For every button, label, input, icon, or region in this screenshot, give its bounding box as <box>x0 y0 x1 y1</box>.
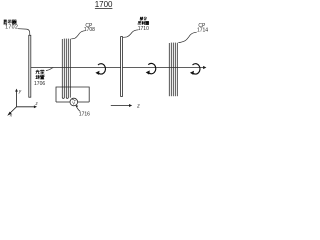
rotation arrow 1 <box>95 64 105 75</box>
svg-text:x: x <box>9 113 13 118</box>
CP stack 1714 (film layers) <box>169 43 177 97</box>
svg-text:1710: 1710 <box>138 26 149 32</box>
svg-text:1700: 1700 <box>95 0 113 9</box>
rotation arrow 3 <box>190 64 200 75</box>
z axis <box>17 106 35 108</box>
svg-text:1716: 1716 <box>79 112 90 118</box>
coordinate axes x y z <box>10 91 35 113</box>
electrode box around CP stack <box>56 87 89 102</box>
voltage source V 1716 <box>70 98 78 106</box>
svg-text:y: y <box>18 90 22 95</box>
leader to display <box>18 29 30 36</box>
svg-text:1708: 1708 <box>84 27 95 33</box>
svg-text:1702: 1702 <box>5 25 18 31</box>
optical axis <box>31 67 204 69</box>
y axis <box>16 91 18 107</box>
title 1700 <box>95 0 113 9</box>
svg-text:1714: 1714 <box>197 28 208 34</box>
leader to CP stack <box>71 31 85 39</box>
x axis <box>10 107 17 114</box>
CP stack 1708 (film layers) <box>62 39 70 99</box>
svg-text:V: V <box>72 101 75 106</box>
leader 1716 <box>76 106 80 111</box>
display 1702 panel <box>29 35 31 97</box>
leader 1706 <box>46 68 53 71</box>
svg-text:1706: 1706 <box>34 81 45 87</box>
rotation arrow 2 <box>146 63 156 74</box>
svg-text:z: z <box>136 104 140 110</box>
label 部分 反射器 1710 <box>138 17 149 25</box>
partial reflector 1710 <box>121 37 123 97</box>
label 光学 堆叠 1706 <box>36 70 45 79</box>
z direction arrow (bottom middle) <box>111 104 140 110</box>
leader 1710 <box>123 30 138 38</box>
label 显示器 1702 <box>3 20 16 24</box>
leader to CP 1714 <box>178 32 196 42</box>
